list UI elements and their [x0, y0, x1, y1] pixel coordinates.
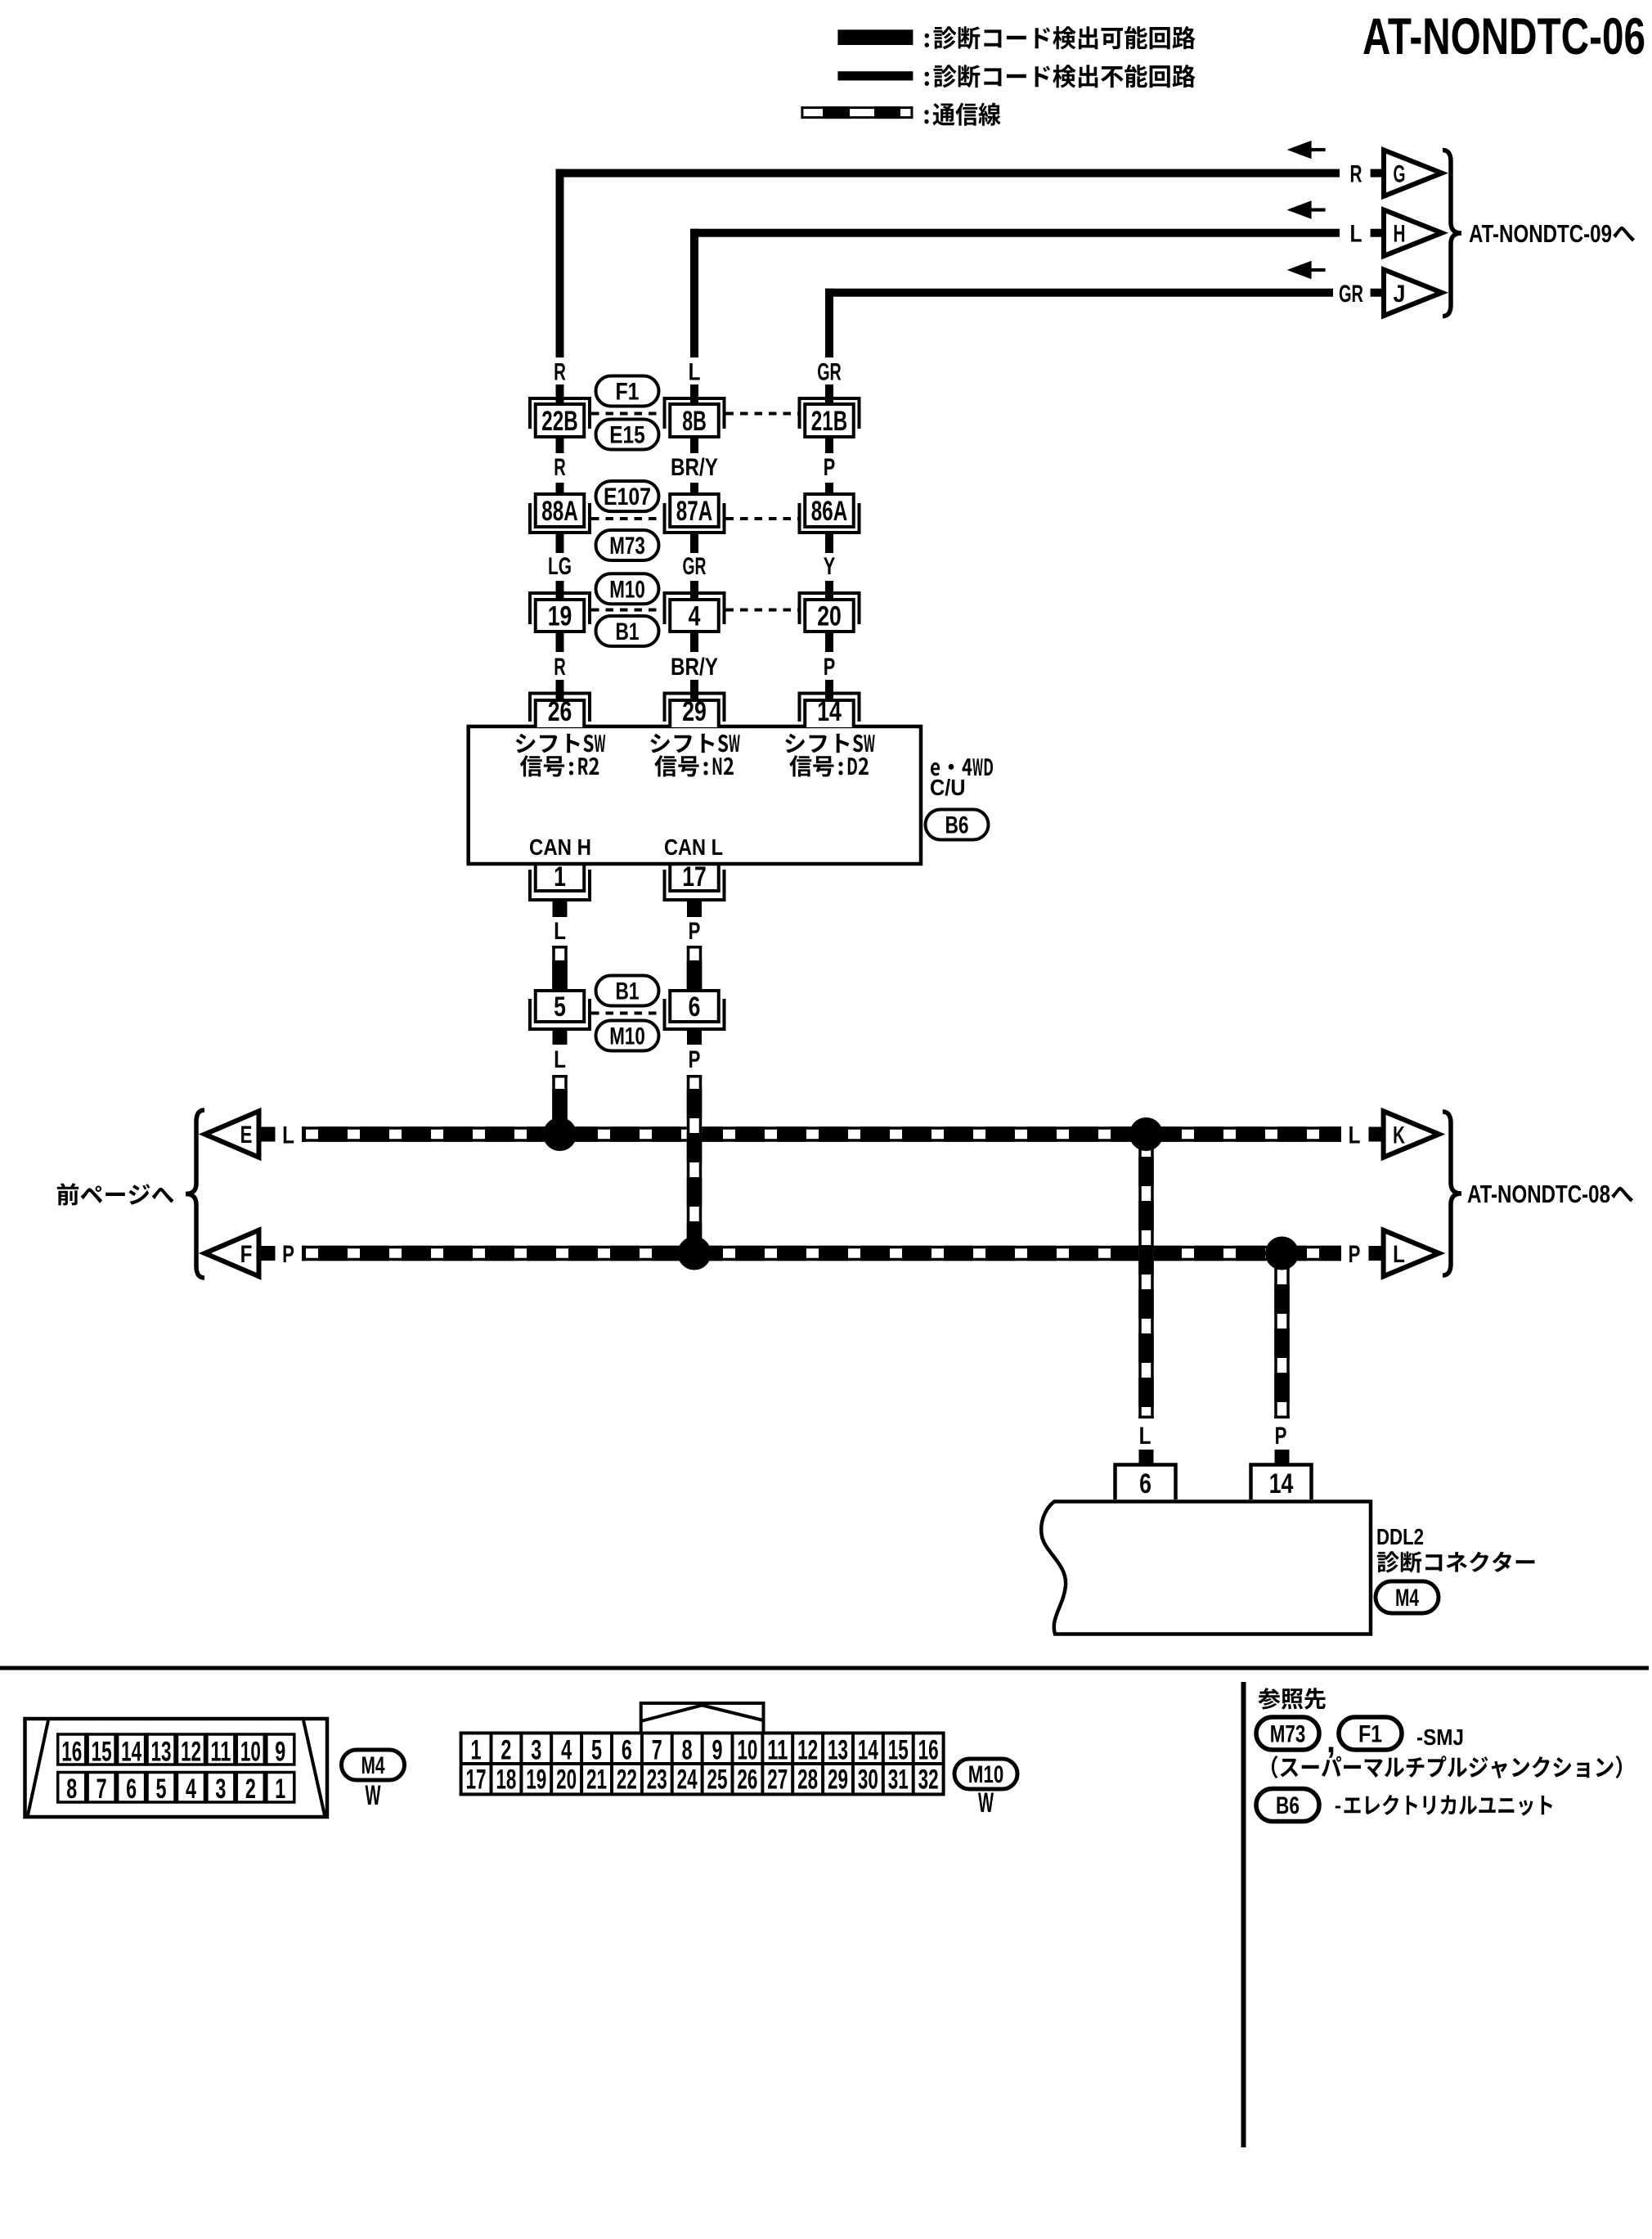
svg-text:32: 32	[918, 1765, 939, 1796]
svg-text:8: 8	[66, 1774, 77, 1805]
label 前ページへ	[57, 1183, 174, 1205]
DDL2 pin 14	[1251, 1465, 1312, 1500]
oval B1 row3	[596, 616, 659, 646]
stub above DDL2 pin 6	[1139, 1450, 1154, 1463]
comm wire conn5 to bus L	[552, 1075, 568, 1129]
svg-text:88A: 88A	[541, 496, 577, 527]
junction dot bus P col2	[678, 1237, 712, 1270]
oval M10 bottom	[954, 1759, 1017, 1789]
svg-text:M10: M10	[609, 576, 645, 603]
arrow into G	[1287, 141, 1326, 160]
svg-text:8B: 8B	[682, 406, 707, 437]
wire into row1 R	[556, 384, 564, 407]
svg-text:13: 13	[828, 1735, 848, 1766]
connector 5 staple	[530, 999, 590, 1029]
svg-text:22B: 22B	[541, 406, 577, 437]
svg-text:R: R	[1350, 161, 1362, 188]
label AT-NONDTC-09へ	[1469, 219, 1635, 248]
connector face M10 pin grid	[461, 1733, 944, 1796]
svg-text:L: L	[554, 918, 566, 945]
bus L communication line	[302, 1126, 1341, 1142]
svg-text:9: 9	[712, 1735, 723, 1766]
svg-text:22: 22	[617, 1765, 637, 1796]
svg-text:6: 6	[622, 1735, 632, 1766]
svg-text:L: L	[1139, 1423, 1151, 1450]
svg-text:P: P	[1275, 1423, 1287, 1450]
svg-text:19: 19	[548, 601, 572, 632]
wire below row3 BR/Y lower	[690, 680, 698, 700]
svg-text:13: 13	[151, 1737, 172, 1768]
oval F1	[596, 376, 659, 407]
svg-text:W: W	[366, 1780, 382, 1811]
svg-text:10: 10	[737, 1735, 757, 1766]
junction dot bus L right	[1129, 1117, 1163, 1151]
arrow into J	[1287, 261, 1326, 280]
svg-text:8: 8	[682, 1735, 693, 1766]
brace to AT-NONDTC-08	[1443, 1112, 1461, 1275]
wire below row1 P lower	[825, 483, 833, 497]
svg-text:2: 2	[245, 1774, 256, 1805]
svg-text:14: 14	[817, 696, 842, 727]
svg-text:5: 5	[156, 1774, 167, 1805]
svg-text:L: L	[554, 1046, 566, 1073]
svg-text:1: 1	[554, 861, 566, 892]
dashed link 4-20	[726, 609, 798, 612]
oval E107	[596, 481, 659, 511]
wire below row1 BR/Y upper	[690, 437, 698, 453]
legend label 通信線	[924, 103, 1000, 126]
label e4WD	[931, 758, 993, 776]
connector 21B staple	[800, 398, 860, 429]
svg-text:5: 5	[591, 1735, 602, 1766]
svg-text:G: G	[1394, 161, 1406, 188]
svg-text:6: 6	[1139, 1468, 1151, 1499]
svg-text:1: 1	[471, 1735, 482, 1766]
connector 21B box	[805, 404, 854, 437]
svg-text:6: 6	[126, 1774, 137, 1805]
arrow into H	[1287, 200, 1326, 219]
svg-text:P: P	[282, 1241, 294, 1268]
svg-text:29: 29	[682, 696, 707, 727]
pin 17 inner	[670, 864, 719, 891]
wire below row1 R lower	[556, 483, 564, 497]
svg-text:M4: M4	[361, 1752, 385, 1779]
stub wire G	[1371, 169, 1385, 178]
wire below row1 P upper	[825, 437, 833, 453]
wire below row3 BR/Y upper	[690, 632, 698, 652]
svg-text:K: K	[1393, 1122, 1405, 1149]
connector 87A staple	[665, 503, 725, 533]
svg-text:R: R	[554, 454, 566, 481]
svg-text:M10: M10	[609, 1023, 645, 1050]
svg-text:P: P	[1349, 1241, 1361, 1268]
connector triangle F	[204, 1230, 258, 1276]
oval B1 conn row	[596, 976, 659, 1006]
svg-text:AT-NONDTC-06: AT-NONDTC-06	[1362, 8, 1645, 65]
reference divider line	[1241, 1682, 1246, 2147]
connector face M4 outline	[25, 1719, 328, 1817]
svg-text:5: 5	[554, 991, 566, 1023]
svg-text:4: 4	[689, 601, 701, 632]
svg-text:P: P	[689, 1046, 701, 1073]
pin 14 inner	[805, 696, 854, 727]
connector 6 staple	[665, 999, 725, 1029]
svg-text:3: 3	[215, 1774, 226, 1805]
pin 1 inner	[536, 864, 585, 891]
bus P communication line	[302, 1246, 1341, 1261]
wire into row1 L	[690, 384, 698, 407]
svg-text:F1: F1	[1358, 1721, 1382, 1748]
svg-text:1: 1	[275, 1774, 285, 1805]
wire into row1 GR	[825, 384, 833, 407]
legend label 診断コード検出不能回路	[925, 65, 1196, 88]
svg-text:2: 2	[501, 1735, 511, 1766]
pin 26 inner	[536, 696, 585, 727]
svg-text:Y: Y	[824, 553, 836, 580]
svg-text:BR/Y: BR/Y	[671, 454, 718, 481]
stub before K	[1369, 1127, 1384, 1142]
svg-text:20: 20	[817, 601, 842, 632]
svg-text:P: P	[824, 454, 836, 481]
connector face M10 tab	[641, 1703, 764, 1733]
label super multiple junction	[1272, 1756, 1622, 1778]
wire below row1 R upper	[556, 437, 564, 453]
svg-text:P: P	[689, 918, 701, 945]
stub below connector 6	[687, 1031, 702, 1045]
connector 20 staple	[800, 593, 860, 624]
dashed link 87A-86A	[726, 517, 798, 520]
wire below row1 BR/Y lower	[690, 483, 698, 497]
oval M4 at DDL2	[1376, 1581, 1439, 1613]
svg-text:GR: GR	[1339, 281, 1363, 308]
wire L vertical drop	[690, 229, 698, 357]
svg-text:DDL2: DDL2	[1376, 1524, 1424, 1549]
svg-text:B1: B1	[616, 618, 640, 645]
connector 88A staple	[530, 503, 590, 533]
svg-text:F1: F1	[616, 379, 640, 406]
connector 6 box	[670, 991, 719, 1023]
connector 22B staple	[530, 398, 590, 429]
svg-text:R: R	[554, 654, 566, 681]
CAN stub below pin (L)	[553, 901, 568, 917]
separator line	[0, 1666, 1649, 1670]
connector 22B box	[536, 404, 585, 437]
stub before L-tri	[1369, 1246, 1384, 1261]
legend comm-line sample bar	[801, 106, 913, 119]
wire GR vertical drop	[825, 289, 833, 357]
wire R vertical drop	[556, 169, 564, 357]
pin 1 outer staple	[530, 870, 590, 900]
wire below row2 GR upper	[690, 534, 698, 553]
svg-text:L: L	[1393, 1241, 1405, 1268]
svg-text:E107: E107	[604, 483, 651, 510]
svg-text:B6: B6	[945, 812, 969, 839]
DDL2 pin 6	[1116, 1465, 1176, 1500]
pin 26 outer staple	[530, 694, 590, 722]
connector 19 box	[536, 600, 585, 632]
svg-text:CAN H: CAN H	[529, 834, 591, 860]
svg-text:M73: M73	[1270, 1721, 1306, 1748]
oval B6 ref	[1256, 1789, 1319, 1822]
connector 86A box	[805, 494, 854, 527]
comm wire drop to DDL2 pin 6	[1138, 1137, 1154, 1418]
svg-text:L: L	[1350, 221, 1362, 248]
svg-text:15: 15	[92, 1737, 112, 1768]
stub below connector 5	[553, 1031, 568, 1045]
svg-text:12: 12	[797, 1735, 818, 1766]
svg-text:AT-NONDTC-09: AT-NONDTC-09	[1469, 219, 1612, 248]
wire below row2 GR lower	[690, 581, 698, 601]
label 参照先	[1258, 1688, 1326, 1710]
svg-text:4: 4	[561, 1735, 572, 1766]
label 診断コネクター	[1377, 1551, 1535, 1572]
svg-text:20: 20	[556, 1765, 577, 1796]
svg-text:E: E	[240, 1122, 253, 1149]
svg-text:16: 16	[918, 1735, 939, 1766]
connector face M4 pin grid	[58, 1734, 294, 1805]
svg-text:C/U: C/U	[930, 775, 966, 800]
svg-text:14: 14	[1269, 1468, 1294, 1499]
svg-text:86A: 86A	[811, 496, 847, 527]
oval M10 row3	[596, 573, 659, 604]
wire below row3 R lower	[556, 680, 564, 700]
svg-text:31: 31	[888, 1765, 909, 1796]
svg-text:L: L	[689, 359, 701, 386]
svg-text:12: 12	[181, 1737, 201, 1768]
svg-text:26: 26	[737, 1765, 757, 1796]
label shift SW N2	[650, 734, 739, 777]
svg-text:10: 10	[240, 1737, 261, 1768]
svg-text:16: 16	[61, 1737, 82, 1768]
svg-text:H: H	[1394, 221, 1406, 248]
junction dot bus L col1	[543, 1117, 577, 1151]
connector 8B box	[670, 404, 719, 437]
wire GR horizontal	[825, 289, 1333, 297]
oval B6	[926, 810, 989, 840]
pin 17 outer staple	[665, 870, 725, 900]
svg-text:B1: B1	[616, 978, 640, 1005]
wire below row3 P upper	[825, 632, 833, 652]
svg-text:W: W	[978, 1787, 994, 1819]
oval M73 ref	[1256, 1717, 1319, 1750]
oval M4 bottom	[342, 1750, 405, 1780]
svg-text:BR/Y: BR/Y	[671, 654, 718, 681]
label AT-NONDTC-08へ	[1467, 1180, 1633, 1208]
dashed link 22B-8B	[591, 412, 663, 416]
connector triangle G	[1384, 150, 1442, 196]
pin 29 inner	[670, 696, 719, 727]
svg-text:E15: E15	[609, 422, 645, 449]
svg-text:6: 6	[689, 991, 701, 1023]
connector 19 staple	[530, 593, 590, 624]
svg-text:GR: GR	[683, 553, 707, 580]
label shift SW R2	[516, 734, 605, 777]
svg-text:L: L	[282, 1122, 294, 1149]
svg-text:M73: M73	[609, 533, 645, 560]
svg-text:M10: M10	[968, 1761, 1004, 1788]
svg-text:-SMJ: -SMJ	[1416, 1724, 1464, 1750]
svg-text:21: 21	[586, 1765, 607, 1796]
stub after F	[261, 1246, 276, 1261]
svg-text:23: 23	[647, 1765, 667, 1796]
svg-text:18: 18	[496, 1765, 516, 1796]
svg-text:B6: B6	[1276, 1792, 1300, 1819]
svg-text:M4: M4	[1395, 1585, 1419, 1612]
wire below row2 LG lower	[556, 581, 564, 601]
connector 86A staple	[800, 503, 860, 533]
svg-text:17: 17	[466, 1765, 487, 1796]
svg-text:R: R	[554, 359, 566, 386]
legend thick-line sample bar	[837, 29, 913, 45]
comm wire conn6 to bus P	[687, 1075, 703, 1248]
oval M10 conn row	[596, 1021, 659, 1051]
pin 29 outer staple	[665, 694, 725, 722]
svg-text:19: 19	[526, 1765, 546, 1796]
svg-text:14: 14	[121, 1737, 141, 1768]
connector 8B staple	[665, 398, 725, 429]
comm wire drop to DDL2 pin 14	[1274, 1258, 1290, 1418]
svg-text:29: 29	[828, 1765, 848, 1796]
stub wire H	[1371, 229, 1385, 237]
svg-text:GR: GR	[817, 359, 842, 386]
brace to AT-NONDTC-09	[1443, 151, 1461, 317]
svg-text:7: 7	[652, 1735, 662, 1766]
pin 14 outer staple	[800, 694, 860, 722]
dashed link 88A-87A	[591, 517, 663, 520]
connector 5 box	[536, 991, 585, 1023]
svg-text:9: 9	[275, 1737, 285, 1768]
svg-text:24: 24	[677, 1765, 698, 1796]
connector 4 staple	[665, 593, 725, 624]
svg-text:17: 17	[682, 861, 707, 892]
connector 88A box	[536, 494, 585, 527]
comm wire L to connector	[552, 946, 568, 991]
svg-text:L: L	[1349, 1122, 1361, 1149]
svg-text:CAN L: CAN L	[664, 834, 723, 860]
label shift SW D2	[785, 734, 874, 777]
connector triangle H	[1384, 210, 1442, 256]
connector triangle L	[1384, 1230, 1439, 1276]
connector 4 box	[670, 600, 719, 632]
DDL2 box	[1041, 1502, 1371, 1634]
CAN stub below pin (P)	[687, 901, 702, 917]
wire below row3 R upper	[556, 632, 564, 652]
svg-text:30: 30	[858, 1765, 878, 1796]
svg-text:11: 11	[210, 1737, 231, 1768]
wire below row2 Y upper	[825, 534, 833, 553]
oval M73	[596, 530, 659, 560]
svg-text:15: 15	[888, 1735, 909, 1766]
connector 20 box	[805, 600, 854, 632]
svg-text:27: 27	[767, 1765, 788, 1796]
svg-text:11: 11	[767, 1735, 788, 1766]
svg-text:26: 26	[548, 696, 572, 727]
svg-text:3: 3	[531, 1735, 541, 1766]
oval F1 ref	[1339, 1717, 1402, 1750]
stub above DDL2 pin 14	[1275, 1450, 1290, 1463]
svg-text:14: 14	[858, 1735, 878, 1766]
dashed link 19-4	[591, 609, 663, 612]
svg-text:25: 25	[707, 1765, 728, 1796]
connector triangle J	[1384, 270, 1442, 316]
svg-text:21B: 21B	[811, 406, 847, 437]
wire below row2 LG upper	[556, 534, 564, 553]
stub wire J	[1371, 289, 1385, 297]
svg-text:AT-NONDTC-08: AT-NONDTC-08	[1467, 1180, 1610, 1208]
junction dot bus P right	[1265, 1237, 1299, 1270]
wire R horizontal	[556, 169, 1340, 178]
svg-text:P: P	[824, 654, 836, 681]
svg-text:,: ,	[1327, 1720, 1336, 1760]
oval E15	[596, 420, 659, 450]
e-4WD C/U box	[469, 726, 921, 864]
svg-text:J: J	[1394, 281, 1406, 308]
legend label 診断コード検出可能回路	[925, 26, 1196, 50]
stub after E	[261, 1127, 276, 1142]
connector triangle K	[1384, 1111, 1439, 1157]
svg-text:87A: 87A	[676, 496, 712, 527]
wire below row2 Y lower	[825, 581, 833, 601]
svg-text:28: 28	[797, 1765, 818, 1796]
svg-text:LG: LG	[548, 553, 572, 580]
label electrical unit	[1336, 1795, 1552, 1816]
wire below row3 P lower	[825, 680, 833, 700]
svg-text:4: 4	[186, 1774, 196, 1805]
connector triangle E	[204, 1111, 258, 1157]
comm wire P to connector	[687, 946, 703, 991]
dashed link 5-6	[591, 1012, 663, 1015]
dashed link 8B-21B	[726, 412, 798, 416]
svg-text:F: F	[240, 1241, 253, 1268]
legend thin-line sample bar	[837, 71, 913, 80]
connector 87A box	[670, 494, 719, 527]
svg-text:7: 7	[97, 1774, 107, 1805]
brace from previous page	[186, 1110, 204, 1278]
wire L horizontal	[690, 229, 1340, 237]
